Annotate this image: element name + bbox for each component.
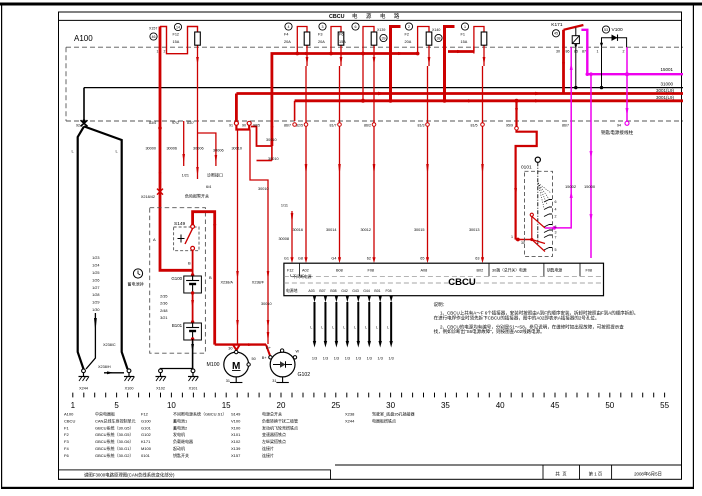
svg-text:G42: G42 (341, 289, 348, 293)
svg-text:X244: X244 (345, 418, 355, 423)
svg-text:1/3: 1/3 (345, 357, 350, 361)
svg-text:电源总开关: 电源总开关 (262, 411, 282, 417)
svg-text:30: 30 (228, 347, 232, 351)
svg-text:A08: A08 (421, 269, 428, 273)
svg-text:G1: G1 (284, 257, 289, 261)
svg-text:15001: 15001 (660, 67, 673, 72)
svg-text:45: 45 (554, 32, 558, 36)
svg-text:蓄电池1: 蓄电池1 (173, 417, 188, 423)
svg-text:1/3: 1/3 (312, 357, 317, 361)
svg-text:负载转换干扰二极管: 负载转换干扰二极管 (262, 417, 298, 423)
svg-text:15A: 15A (173, 40, 180, 44)
svg-text:F2: F2 (405, 33, 409, 37)
svg-text:S149: S149 (174, 221, 186, 227)
svg-text:谱图F3000电路原理图(CAN总线系统变化部分): 谱图F3000电路原理图(CAN总线系统变化部分) (84, 472, 175, 479)
svg-text:F3: F3 (318, 33, 322, 37)
svg-text:1/3: 1/3 (367, 357, 372, 361)
svg-text:找，例如诊断出“S6电源故障”，则按图查A02线路电源。: 找，例如诊断出“S6电源故障”，则按图查A02线路电源。 (434, 328, 545, 335)
svg-text:L: L (354, 326, 356, 330)
svg-text:F12: F12 (173, 33, 180, 37)
svg-text:F12: F12 (141, 412, 149, 417)
svg-text:S149: S149 (231, 412, 241, 417)
svg-text:1/27: 1/27 (92, 286, 99, 290)
svg-text:38: 38 (437, 36, 441, 40)
svg-text:30006: 30006 (193, 147, 204, 151)
svg-text:CBCU: CBCU (448, 277, 476, 288)
svg-text:1: 1 (157, 50, 159, 54)
svg-text:F3: F3 (64, 439, 69, 444)
svg-text:F4: F4 (284, 33, 288, 37)
svg-text:30013: 30013 (469, 228, 480, 232)
svg-text:3/21: 3/21 (160, 316, 167, 320)
svg-text:30010: 30010 (231, 147, 242, 151)
svg-text:20A: 20A (405, 40, 412, 44)
svg-text:GBCU系统（30.G6）: GBCU系统（30.G6） (95, 438, 133, 444)
svg-text:B02: B02 (477, 269, 484, 273)
svg-text:V100: V100 (231, 418, 241, 423)
svg-text:10: 10 (167, 401, 176, 410)
svg-text:X238: X238 (345, 412, 355, 417)
svg-text:F6: F6 (64, 453, 69, 458)
svg-text:电: 电 (380, 12, 386, 20)
svg-text:0101: 0101 (141, 453, 151, 458)
svg-text:86: 86 (566, 49, 570, 53)
svg-text:蓄电池钟: 蓄电池钟 (128, 280, 144, 286)
svg-text:A03: A03 (308, 289, 314, 293)
svg-text:1/3: 1/3 (334, 357, 339, 361)
svg-text:97/2: 97/2 (172, 121, 179, 125)
svg-text:不间断电源系统（GBCU.S1）: 不间断电源系统（GBCU.S1） (173, 411, 227, 417)
svg-text:L: L (321, 326, 323, 330)
svg-text:30008: 30008 (278, 237, 289, 241)
svg-text:发动机飞轮壳搭铁点: 发动机飞轮壳搭铁点 (262, 424, 298, 430)
svg-text:14: 14 (176, 25, 180, 29)
svg-text:驾驶室_底盘35孔插接器: 驾驶室_底盘35孔插接器 (372, 411, 415, 417)
svg-text:G8: G8 (298, 257, 303, 261)
svg-text:90: 90 (242, 123, 246, 127)
svg-text:2/48: 2/48 (160, 309, 167, 313)
svg-text:40: 40 (496, 401, 505, 410)
svg-text:蓄电池2: 蓄电池2 (173, 424, 188, 430)
svg-text:2: 2 (555, 215, 557, 219)
svg-text:电源地: 电源地 (286, 288, 298, 293)
svg-text:起动机: 起动机 (173, 445, 185, 451)
svg-text:CBCU: CBCU (329, 14, 345, 20)
svg-text:X139: X139 (231, 446, 241, 451)
svg-text:G43: G43 (352, 289, 359, 293)
svg-text:F12: F12 (287, 269, 294, 273)
svg-text:B101: B101 (172, 323, 183, 328)
svg-text:87: 87 (582, 49, 586, 53)
svg-text:45: 45 (551, 401, 560, 410)
svg-text:53: 53 (604, 28, 608, 32)
svg-text:83/7: 83/7 (187, 121, 194, 125)
svg-text:6/4: 6/4 (206, 185, 211, 189)
svg-text:1/24: 1/24 (92, 264, 99, 268)
svg-text:诊断接口: 诊断接口 (207, 172, 223, 178)
svg-text:左纵梁搭铁点: 左纵梁搭铁点 (262, 438, 286, 444)
svg-text:M100: M100 (207, 362, 220, 368)
svg-text:GBCU系统（30.G5）: GBCU系统（30.G5） (95, 424, 133, 430)
svg-text:F4: F4 (64, 446, 69, 451)
svg-text:92: 92 (76, 123, 80, 127)
svg-text:连接片: 连接片 (262, 445, 274, 451)
svg-text:X100: X100 (125, 387, 134, 391)
svg-text:X218/42: X218/42 (141, 195, 155, 199)
svg-text:K171: K171 (141, 439, 151, 444)
svg-text:30016: 30016 (292, 228, 303, 232)
svg-text:B08: B08 (330, 289, 336, 293)
svg-text:2/35: 2/35 (160, 295, 167, 299)
svg-text:4: 4 (288, 25, 290, 29)
svg-text:路: 路 (394, 12, 400, 20)
svg-text:共 页: 共 页 (555, 470, 567, 477)
svg-text:2008年6月5日: 2008年6月5日 (634, 470, 662, 477)
svg-text:M100: M100 (141, 446, 152, 451)
svg-text:┗不间断电源: ┗不间断电源 (289, 274, 312, 279)
svg-text:1/28: 1/28 (92, 293, 99, 297)
svg-text:15: 15 (222, 401, 231, 410)
svg-text:F6: F6 (339, 33, 343, 37)
svg-text:X157: X157 (231, 453, 241, 458)
svg-text:3001(L9): 3001(L9) (656, 88, 675, 93)
svg-text:31: 31 (226, 379, 230, 383)
svg-text:D+: D+ (266, 346, 272, 350)
svg-text:50: 50 (252, 357, 256, 361)
svg-text:1/23: 1/23 (92, 256, 99, 260)
svg-text:1/3: 1/3 (356, 357, 361, 361)
svg-text:62: 62 (367, 257, 371, 261)
svg-text:K171: K171 (551, 22, 563, 28)
svg-text:F2: F2 (64, 432, 69, 437)
svg-text:X238/F: X238/F (252, 281, 265, 285)
svg-text:连接片: 连接片 (262, 452, 274, 458)
svg-text:30: 30 (556, 49, 560, 53)
svg-text:F1: F1 (64, 425, 69, 430)
svg-text:B08: B08 (336, 269, 343, 273)
svg-text:G100: G100 (171, 276, 182, 281)
svg-text:L: L (310, 326, 312, 330)
svg-text:95/9: 95/9 (506, 124, 513, 128)
svg-text:31: 31 (272, 379, 276, 383)
svg-text:30006: 30006 (213, 149, 224, 153)
svg-text:发电机: 发电机 (173, 431, 185, 437)
svg-text:2: 2 (164, 50, 166, 54)
svg-text:X244: X244 (79, 387, 88, 391)
svg-text:30014: 30014 (326, 228, 337, 232)
svg-text:30010: 30010 (266, 138, 277, 142)
svg-text:F1: F1 (461, 33, 465, 37)
svg-text:0101: 0101 (521, 165, 532, 171)
svg-text:1/30: 1/30 (92, 308, 99, 312)
svg-text:85: 85 (574, 49, 578, 53)
svg-text:负载继电器: 负载继电器 (173, 438, 193, 444)
svg-text:1/25: 1/25 (92, 271, 99, 275)
svg-text:X101: X101 (231, 432, 241, 437)
svg-text:30012: 30012 (360, 228, 371, 232)
svg-text:F08: F08 (385, 289, 391, 293)
svg-text:30010: 30010 (268, 157, 279, 161)
svg-text:中央电器板: 中央电器板 (95, 411, 115, 417)
svg-text:说明：: 说明： (434, 301, 448, 308)
svg-text:电器板搭铁点: 电器板搭铁点 (372, 417, 396, 423)
svg-text:F08: F08 (368, 269, 375, 273)
svg-text:F08: F08 (586, 269, 593, 273)
svg-text:源: 源 (366, 12, 372, 20)
svg-text:X238/A: X238/A (221, 281, 234, 285)
svg-text:钥匙电源: 钥匙电源 (547, 268, 562, 273)
svg-text:1: 1 (597, 49, 599, 53)
svg-text:30010: 30010 (258, 187, 269, 191)
svg-text:81/5: 81/5 (471, 123, 478, 127)
svg-text:39: 39 (382, 36, 386, 40)
svg-text:1/11: 1/11 (281, 204, 288, 208)
svg-text:20: 20 (277, 401, 286, 410)
svg-text:1/3: 1/3 (323, 357, 328, 361)
svg-text:86/7: 86/7 (284, 123, 291, 127)
svg-text:94: 94 (617, 124, 621, 128)
svg-text:15A: 15A (339, 40, 346, 44)
svg-text:65: 65 (420, 257, 424, 261)
svg-text:CAN总线车身控制单元: CAN总线车身控制单元 (95, 417, 135, 423)
svg-text:X139: X139 (377, 28, 385, 32)
svg-text:1/3: 1/3 (378, 357, 383, 361)
svg-text:20A: 20A (284, 40, 291, 44)
svg-text:25: 25 (331, 401, 340, 410)
svg-text:55: 55 (660, 401, 669, 410)
svg-text:X100: X100 (231, 425, 241, 430)
svg-text:15000: 15000 (584, 184, 596, 189)
svg-text:5: 5 (114, 401, 119, 410)
svg-text:2: 2 (408, 25, 410, 29)
svg-text:30端（总开关）电源: 30端（总开关）电源 (492, 268, 527, 273)
svg-text:7: 7 (555, 236, 557, 240)
svg-text:B07: B07 (319, 289, 325, 293)
svg-text:5: 5 (555, 248, 557, 252)
svg-text:变速器搭铁点: 变速器搭铁点 (262, 431, 286, 437)
svg-text:L: L (365, 326, 367, 330)
svg-text:1: 1 (71, 401, 76, 410)
svg-text:X102: X102 (156, 387, 165, 391)
svg-text:30010: 30010 (261, 302, 272, 306)
svg-text:G100: G100 (141, 418, 152, 423)
svg-text:危险报警开关: 危险报警开关 (185, 193, 209, 199)
svg-text:钥匙开关: 钥匙开关 (173, 452, 189, 458)
svg-text:91: 91 (229, 123, 233, 127)
svg-text:G4: G4 (331, 257, 336, 261)
svg-text:L: L (376, 326, 378, 330)
svg-text:X140: X140 (432, 28, 440, 32)
svg-text:A100: A100 (74, 34, 93, 43)
svg-text:30015: 30015 (414, 228, 425, 232)
svg-text:X157: X157 (149, 27, 157, 31)
svg-text:L: L (387, 326, 389, 330)
svg-text:3: 3 (555, 231, 557, 235)
svg-text:6: 6 (555, 200, 557, 204)
svg-text:B: B (209, 275, 212, 280)
svg-text:L: L (343, 326, 345, 330)
svg-text:G101: G101 (141, 425, 152, 430)
svg-text:46: 46 (152, 35, 156, 39)
svg-text:W: W (296, 350, 300, 354)
svg-text:V100: V100 (612, 27, 624, 33)
svg-text:35: 35 (441, 401, 450, 410)
svg-text:3: 3 (322, 25, 324, 29)
svg-text:50: 50 (605, 401, 614, 410)
svg-text:GBCU系统（30.G1）: GBCU系统（30.G1） (95, 445, 133, 451)
svg-text:X102: X102 (231, 439, 241, 444)
svg-text:X101: X101 (189, 387, 198, 391)
svg-text:A100: A100 (64, 412, 74, 417)
svg-text:20A: 20A (318, 40, 325, 44)
svg-text:31000: 31000 (660, 82, 673, 87)
svg-text:GBCU系统（30.G2）: GBCU系统（30.G2） (95, 452, 133, 458)
svg-text:15002: 15002 (565, 184, 577, 189)
svg-text:2: 2 (623, 49, 625, 53)
svg-text:1/26: 1/26 (92, 278, 99, 282)
svg-text:30000: 30000 (145, 147, 156, 151)
svg-text:G102: G102 (141, 432, 152, 437)
svg-text:83/4: 83/4 (149, 121, 156, 125)
svg-text:1: 1 (511, 235, 513, 239)
svg-text:1/3: 1/3 (389, 357, 394, 361)
svg-text:82/5: 82/5 (296, 123, 303, 127)
svg-text:B: B (188, 261, 191, 266)
svg-text:X238/C: X238/C (103, 343, 116, 347)
svg-text:30: 30 (386, 401, 395, 410)
svg-text:81/3: 81/3 (418, 123, 425, 127)
svg-text:电: 电 (352, 12, 358, 20)
svg-text:钥匙电源接线柱: 钥匙电源接线柱 (601, 129, 634, 136)
svg-text:GBCU系统（30.G5）: GBCU系统（30.G5） (95, 431, 133, 437)
svg-text:A02: A02 (302, 269, 309, 273)
svg-text:在进行电焊作业时须先拆下CBCU的插接器，图中的A02即表示: 在进行电焊作业时须先拆下CBCU的插接器，图中的A02即表示A插接器的2号孔位。 (434, 315, 600, 322)
svg-text:2/36: 2/36 (160, 302, 167, 306)
svg-text:4: 4 (555, 208, 557, 212)
svg-text:B+: B+ (262, 356, 268, 360)
svg-text:CBCU: CBCU (64, 418, 75, 423)
svg-text:15A: 15A (461, 40, 468, 44)
svg-text:86/2: 86/2 (364, 123, 371, 127)
svg-text:L: L (332, 326, 334, 330)
svg-text:6: 6 (355, 25, 357, 29)
svg-text:X238/H: X238/H (98, 365, 111, 369)
svg-text:A: A (153, 237, 156, 242)
svg-text:G44: G44 (363, 289, 370, 293)
svg-text:1: 1 (464, 25, 466, 29)
svg-text:1/29: 1/29 (92, 301, 99, 305)
svg-text:3001(L9): 3001(L9) (656, 95, 675, 100)
svg-text:B01: B01 (374, 289, 380, 293)
svg-text:98/5: 98/5 (253, 123, 260, 127)
svg-text:63: 63 (475, 257, 479, 261)
svg-text:81/7: 81/7 (330, 123, 337, 127)
svg-text:第 1 页: 第 1 页 (589, 470, 603, 477)
svg-text:86/7: 86/7 (562, 123, 569, 127)
svg-text:1/21: 1/21 (182, 174, 189, 178)
svg-text:G102: G102 (298, 372, 311, 378)
svg-text:30006: 30006 (166, 147, 177, 151)
